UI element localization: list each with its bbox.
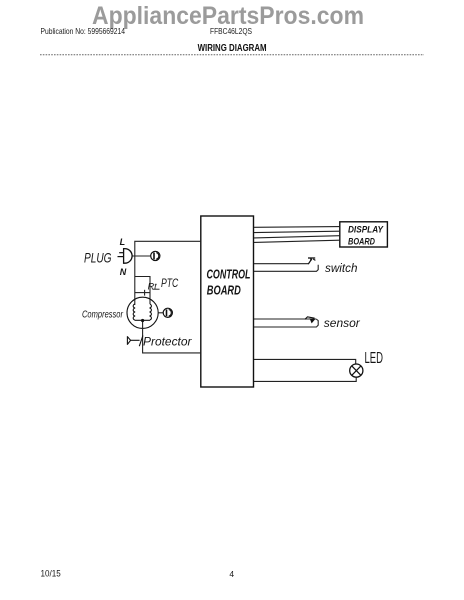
svg-text:switch: switch	[325, 263, 358, 275]
svg-text:Compressor: Compressor	[82, 309, 123, 321]
svg-text:BOARD: BOARD	[348, 237, 376, 247]
svg-text:LED: LED	[365, 350, 384, 367]
svg-text:sensor: sensor	[324, 316, 361, 330]
svg-text:CONTROL: CONTROL	[207, 267, 251, 281]
svg-text:N: N	[120, 267, 127, 277]
svg-text:PTC: PTC	[161, 278, 179, 290]
svg-text:Publication No: 5995669214: Publication No: 5995669214	[41, 27, 126, 36]
svg-text:10/15: 10/15	[41, 569, 61, 579]
svg-text:4: 4	[229, 569, 234, 579]
svg-text:WIRING DIAGRAM: WIRING DIAGRAM	[198, 43, 267, 54]
svg-text:DISPLAY: DISPLAY	[348, 225, 384, 235]
svg-text:Rt: Rt	[148, 281, 157, 292]
svg-text:FFBC46L2QS: FFBC46L2QS	[210, 26, 252, 36]
svg-text:BOARD: BOARD	[207, 283, 241, 297]
svg-text:Protector: Protector	[143, 335, 192, 349]
svg-text:L: L	[120, 237, 126, 247]
svg-text:PLUG: PLUG	[84, 250, 112, 266]
